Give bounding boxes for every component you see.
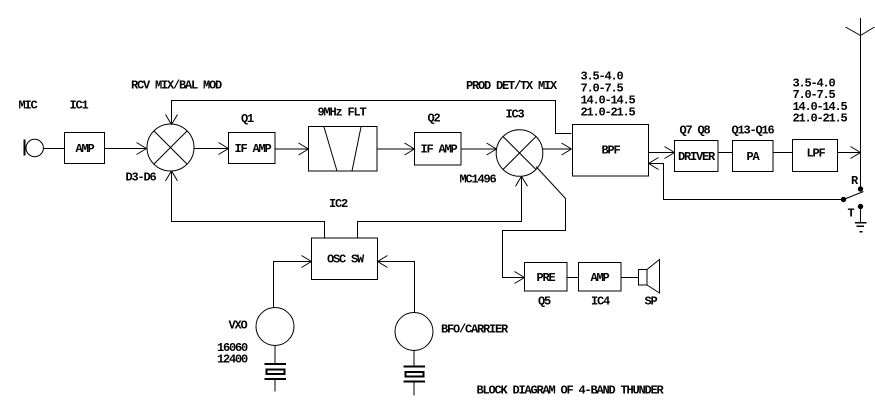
- wire AMP to mixer U1: [105, 143, 147, 155]
- IF amplifier Q1 box: [229, 133, 276, 164]
- wire mixer U1 top feed from node at y=100: [166, 101, 572, 134]
- svg-text:AMP: AMP: [591, 271, 610, 285]
- label frequency list right: [793, 77, 848, 126]
- crystal Y1 (VXO): [265, 346, 287, 392]
- IF amplifier Q2 box: [415, 133, 462, 166]
- audio amplifier IC4 AMP box: [579, 263, 622, 292]
- wire LPF to antenna node: [838, 147, 861, 159]
- svg-text:DRIVER: DRIVER: [678, 150, 716, 164]
- svg-text:IF AMP: IF AMP: [421, 143, 458, 157]
- wire Q1 to filter: [275, 143, 309, 155]
- label frequency list left: [581, 70, 636, 120]
- wire T/R switch return to BPF: [649, 158, 844, 200]
- wire IC3 bottom feed from OSC SW: [358, 176, 528, 238]
- wire Q2 to mixer IC3: [461, 143, 497, 155]
- mixer U1 RCV MIX/BAL MOD: [147, 124, 194, 171]
- svg-text:IF AMP: IF AMP: [235, 142, 272, 156]
- svg-text:12400: 12400: [217, 353, 248, 367]
- preamp Q5 PRE box: [525, 263, 568, 292]
- wire DRIVER to PA: [718, 152, 733, 154]
- wire MIC to AMP: [44, 148, 65, 150]
- svg-text:BFO/CARRIER: BFO/CARRIER: [441, 323, 509, 337]
- wire PA to LPF: [773, 152, 793, 154]
- svg-text:IC3: IC3: [506, 108, 525, 122]
- svg-text:Q2: Q2: [428, 112, 441, 126]
- svg-text:MC1496: MC1496: [460, 173, 497, 187]
- wire IC3 to BPF: [543, 143, 572, 155]
- wire mixer U1 to Q1: [194, 143, 229, 155]
- svg-text:T: T: [848, 207, 855, 221]
- svg-text:AMP: AMP: [76, 142, 95, 156]
- svg-text:IC2: IC2: [329, 197, 348, 211]
- svg-text:RCV MIX/BAL MOD: RCV MIX/BAL MOD: [131, 79, 222, 93]
- svg-text:9MHz FLT: 9MHz FLT: [318, 106, 367, 120]
- svg-text:21.0-21.5: 21.0-21.5: [581, 106, 636, 120]
- wire AMP to speaker: [621, 277, 639, 279]
- wire T contact to ground: [860, 207, 862, 223]
- svg-text:IC1: IC1: [70, 99, 89, 113]
- filter FL1 9MHz FLT box: [309, 127, 378, 172]
- svg-text:21.0-21.5: 21.0-21.5: [793, 112, 848, 126]
- amplifier IC1 AMP box: [65, 133, 105, 164]
- node R contact: [858, 187, 862, 191]
- svg-text:Q7 Q8: Q7 Q8: [680, 124, 711, 138]
- svg-text:OSC SW: OSC SW: [327, 253, 365, 267]
- wire PRE to AMP IC4: [567, 277, 579, 279]
- svg-text:LPF: LPF: [807, 147, 826, 161]
- wire mixer U1 bottom feed from OSC SW: [166, 171, 325, 238]
- switch arm T/R: [844, 192, 864, 200]
- bandpass filter BPF box: [573, 125, 649, 177]
- svg-text:Q5: Q5: [538, 295, 551, 309]
- svg-text:MIC: MIC: [19, 99, 38, 113]
- svg-text:VXO: VXO: [229, 319, 248, 333]
- oscillator switch IC2 OSC SW box: [312, 238, 378, 280]
- svg-text:D3-D6: D3-D6: [126, 171, 157, 185]
- crystal Y2 (BFO): [404, 351, 426, 396]
- power amplifier Q13-Q16 PA box: [733, 141, 774, 172]
- ground: [855, 223, 867, 232]
- svg-text:PROD DET/TX MIX: PROD DET/TX MIX: [466, 79, 558, 93]
- oscillator BFO/CARRIER: [395, 313, 433, 351]
- svg-text:PRE: PRE: [537, 271, 556, 285]
- driver amplifier Q7 Q8 DRIVER box: [675, 141, 719, 172]
- mixer IC3 PROD DET/TX MIX: [496, 130, 543, 177]
- svg-text:IC4: IC4: [591, 295, 610, 309]
- wire BPF to DRIVER: [649, 147, 675, 159]
- node T contact: [858, 204, 862, 208]
- node switch common: [841, 197, 845, 201]
- svg-text:PA: PA: [747, 150, 761, 164]
- svg-text:BPF: BPF: [602, 144, 621, 158]
- antenna: [846, 18, 875, 189]
- svg-text:Q1: Q1: [241, 112, 254, 126]
- wire BFO to OSC SW: [378, 256, 415, 314]
- microphone MIC: [24, 139, 44, 156]
- wire filter to Q2: [377, 143, 415, 155]
- svg-text:Q13-Q16: Q13-Q16: [732, 124, 775, 138]
- oscillator VXO: [256, 308, 294, 346]
- svg-text:BLOCK DIAGRAM OF 4-BAND THUNDE: BLOCK DIAGRAM OF 4-BAND THUNDER: [477, 384, 665, 398]
- lowpass filter LPF box: [793, 140, 838, 172]
- wire VXO to OSC SW: [274, 256, 312, 308]
- speaker SP: [639, 260, 660, 294]
- svg-text:SP: SP: [645, 295, 658, 309]
- wire IC3 audio out to PRE: [503, 167, 566, 284]
